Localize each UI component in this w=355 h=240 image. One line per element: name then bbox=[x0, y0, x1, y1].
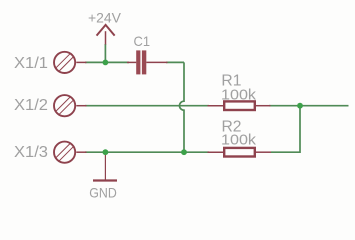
ground GND bbox=[93, 155, 117, 181]
resistor R1 bbox=[208, 101, 271, 110]
capacitor C1 bbox=[127, 50, 168, 74]
wire right vertical bbox=[271, 106, 300, 153]
junction node right bbox=[297, 103, 303, 109]
resistor R2 bbox=[208, 148, 272, 157]
svg-text:+24V: +24V bbox=[88, 9, 122, 25]
wire top net horizontal right bbox=[166, 61, 184, 63]
svg-text:X1/3: X1/3 bbox=[14, 144, 48, 161]
svg-text:100k: 100k bbox=[221, 87, 257, 104]
junction node bottom-left bbox=[103, 149, 109, 155]
svg-text:X1/1: X1/1 bbox=[14, 55, 48, 72]
terminal X1/3 bbox=[54, 142, 87, 163]
terminal X1/2 bbox=[54, 95, 87, 116]
svg-text:C1: C1 bbox=[134, 33, 151, 49]
wire middle net horizontal left bbox=[85, 105, 209, 107]
supply +24V arrow bbox=[97, 25, 114, 35]
wire +24V vertical bbox=[104, 44, 106, 62]
svg-text:GND: GND bbox=[89, 184, 117, 200]
wire vertical from C1 to bottom with hop bbox=[180, 62, 185, 152]
svg-text:100k: 100k bbox=[221, 132, 257, 149]
wire top net horizontal left bbox=[85, 61, 129, 63]
wire middle net horizontal right bbox=[269, 105, 349, 107]
svg-text:X1/2: X1/2 bbox=[14, 97, 48, 114]
wire bottom net horizontal bbox=[85, 151, 209, 153]
junction node bottom-mid bbox=[181, 149, 187, 155]
terminal X1/1 bbox=[54, 52, 87, 73]
junction node top bbox=[103, 60, 109, 66]
